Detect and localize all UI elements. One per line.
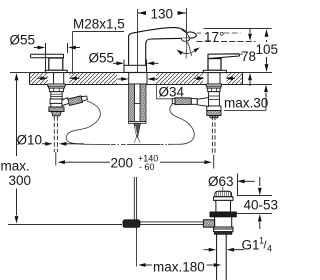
svg-text:M28x1,5: M28x1,5 xyxy=(73,17,125,32)
right supply pipe (dashed) xyxy=(212,116,215,155)
spout threaded shank under deck xyxy=(129,84,147,123)
flange xyxy=(214,197,233,201)
svg-text:Ø34: Ø34 xyxy=(159,85,185,100)
tailpipe xyxy=(217,234,227,280)
svg-text:max.: max. xyxy=(1,159,30,174)
left handle lever xyxy=(30,54,63,57)
right handle escutcheon xyxy=(203,70,226,72)
extension deck bottom right xyxy=(243,84,273,86)
extension outlet level (78) dashed xyxy=(197,41,256,43)
pop-up rod vertical xyxy=(134,177,136,220)
svg-text:4: 4 xyxy=(267,244,272,254)
svg-text:Ø10: Ø10 xyxy=(17,133,43,148)
left valve hose connector (angled) xyxy=(62,95,88,106)
svg-text:max.30: max.30 xyxy=(224,95,268,110)
right valve hose connector xyxy=(172,98,208,107)
extension top of spout (105) xyxy=(204,28,272,30)
horizontal rod to drain xyxy=(140,222,204,225)
locknut xyxy=(214,227,233,232)
svg-text:- 60: - 60 xyxy=(139,162,155,172)
plug dome xyxy=(215,191,232,197)
lever top extension right xyxy=(240,53,244,55)
neck xyxy=(216,200,231,212)
countertop deck hatched band xyxy=(29,73,243,85)
svg-text:Ø63: Ø63 xyxy=(208,174,234,189)
in-deck hole arrows right handle xyxy=(195,76,236,80)
svg-text:200: 200 xyxy=(111,156,134,171)
dashed horizontal from tip xyxy=(197,32,201,34)
spout body xyxy=(129,28,197,67)
right valve under deck xyxy=(206,84,221,118)
angle arc xyxy=(179,49,199,54)
rod joint xyxy=(123,220,140,228)
outlet extension line x187 xyxy=(186,8,188,44)
extension deck top right xyxy=(243,72,273,74)
svg-text:max.180: max.180 xyxy=(153,260,205,275)
spout escutcheon flange xyxy=(124,65,147,72)
svg-text:Ø55: Ø55 xyxy=(10,32,36,47)
dimension 130 xyxy=(138,11,187,15)
in-deck hole arrows spout xyxy=(118,77,158,81)
dimension 200 +140/-60 xyxy=(58,160,111,164)
label Ø34 with leader xyxy=(157,84,185,99)
aerator under tip xyxy=(181,38,190,41)
extension flange underside xyxy=(238,195,273,197)
svg-text:17°: 17° xyxy=(204,30,224,45)
spout tip crease xyxy=(182,30,190,38)
left handle post xyxy=(49,58,63,70)
left handle escutcheon xyxy=(45,70,67,72)
spout centerline (130 extension) xyxy=(137,9,139,72)
right handle shank in deck xyxy=(208,73,220,84)
rod knob xyxy=(203,220,214,227)
pop-up waste assembly xyxy=(203,191,236,280)
svg-text:G1: G1 xyxy=(242,238,260,253)
svg-text:Ø55: Ø55 xyxy=(89,51,115,66)
svg-text:300: 300 xyxy=(9,173,32,188)
outlet vertical reference xyxy=(186,42,187,59)
body xyxy=(215,217,232,227)
right handle lever xyxy=(208,54,240,59)
in-deck hole arrows left handle xyxy=(38,76,80,80)
svg-text:78: 78 xyxy=(241,49,256,64)
rod lower extension xyxy=(136,227,138,266)
extension seal top xyxy=(237,213,273,215)
hose tails nib below shank xyxy=(134,123,141,143)
svg-text:40-53: 40-53 xyxy=(244,198,279,213)
rubber seal xyxy=(210,212,236,217)
drain centerline xyxy=(222,187,224,191)
left valve under deck xyxy=(48,84,65,116)
flexible hose loop xyxy=(66,101,194,144)
spout shank in deck xyxy=(129,73,147,84)
left supply pipe (dashed) xyxy=(54,116,57,152)
tilted stream line xyxy=(188,43,192,57)
svg-text:105: 105 xyxy=(256,42,279,57)
left handle shank in deck xyxy=(54,73,64,84)
svg-text:130: 130 xyxy=(151,7,174,22)
right handle post xyxy=(208,59,221,71)
